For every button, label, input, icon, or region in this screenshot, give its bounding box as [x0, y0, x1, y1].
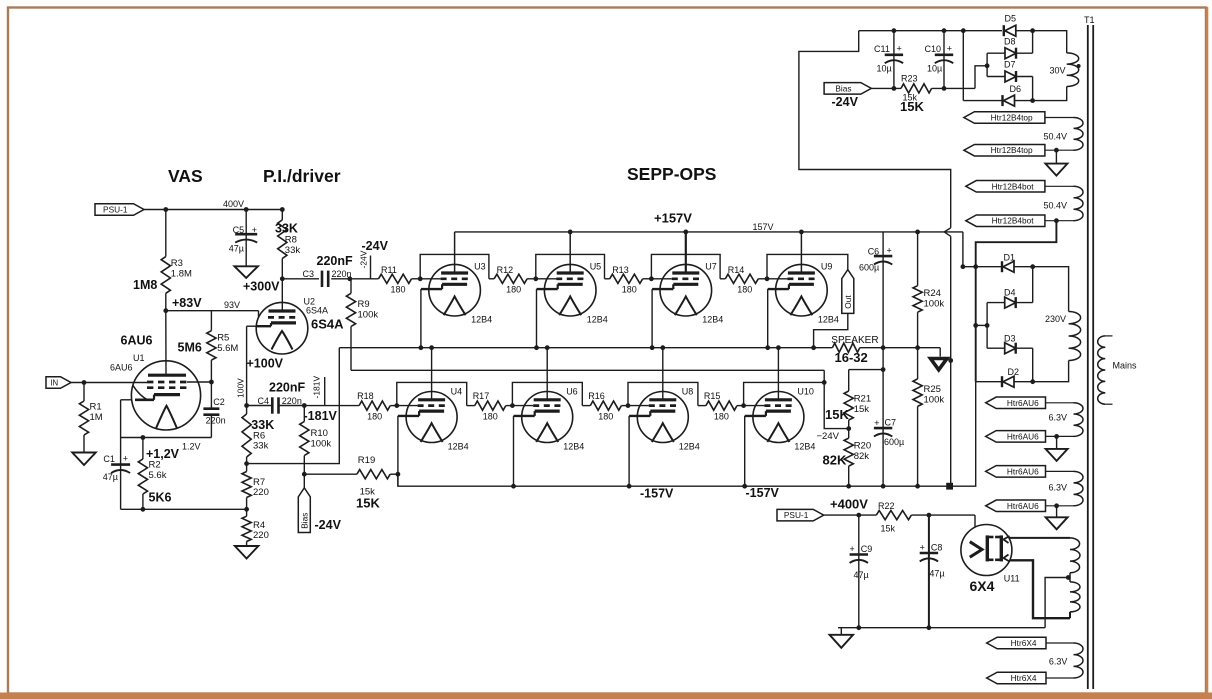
wire -24V supply top rail [859, 30, 1002, 32]
svg-text:-24V: -24V [315, 518, 342, 532]
svg-text:U7: U7 [705, 262, 717, 272]
svg-text:12B4: 12B4 [563, 442, 584, 452]
transformer T1 core [1084, 15, 1095, 689]
resistor R12 [489, 265, 536, 295]
junction bus1 at U8 plate [660, 345, 665, 350]
node PSU-1 (bottom connector) [777, 509, 824, 520]
wire Htr12B4bot lower lead [1045, 220, 1074, 222]
junction HV center tap [1066, 575, 1071, 580]
svg-text:U1: U1 [133, 353, 145, 363]
junction U9 grid node [765, 276, 770, 281]
junction U3 grid node [418, 276, 423, 281]
svg-text:R9: R9 [358, 299, 370, 310]
junction bus1 at U5 cathode [534, 345, 539, 350]
svg-text:U11: U11 [1004, 574, 1020, 584]
wire Out tag to bus1 [814, 313, 848, 347]
wire U9 grid jumper [767, 254, 848, 278]
junction input at R1 [82, 380, 87, 385]
svg-text:10µ: 10µ [877, 64, 892, 74]
svg-text:6S4A: 6S4A [311, 317, 344, 332]
wire 30V winding bottom lead [1033, 87, 1067, 101]
svg-text:12B4: 12B4 [794, 442, 815, 452]
junction bus1 at C6 column [881, 345, 886, 350]
wire +400V line [824, 514, 975, 516]
junction bias at C11 [892, 86, 897, 91]
svg-text:R2: R2 [149, 460, 161, 471]
title VAS [168, 166, 203, 186]
wire U6 plate lead [546, 348, 548, 400]
junction heater bot tap [1054, 218, 1059, 223]
wire screen to R5/C2 [187, 381, 211, 383]
junction bottom rail at R2 [141, 507, 146, 512]
ground at Htr6AU6 a [1046, 436, 1068, 461]
svg-text:+: + [850, 544, 855, 554]
svg-text:+: + [123, 453, 128, 463]
svg-text:+: + [874, 418, 879, 428]
svg-text:IN: IN [50, 379, 58, 388]
wire U8 cathode drop [628, 416, 630, 486]
svg-text:180: 180 [622, 285, 637, 295]
junction bridge2 feed left [973, 323, 978, 328]
wire D3 out to D2 node [1032, 348, 1034, 382]
diode D7 [987, 60, 1033, 83]
wire D8 out to D5 node [1032, 31, 1034, 54]
svg-text:50.4V: 50.4V [1044, 201, 1068, 211]
svg-text:D5: D5 [1005, 14, 1017, 24]
junction bus1 at U10 plate [776, 345, 781, 350]
svg-text:220: 220 [253, 487, 269, 498]
capacitor C10 [925, 31, 954, 89]
wire U3 plate lead [454, 232, 456, 273]
svg-text:T1: T1 [1084, 15, 1095, 25]
svg-text:1M: 1M [90, 412, 103, 423]
svg-text:1M8: 1M8 [133, 278, 157, 292]
node Htr6X4 (2) [987, 672, 1046, 684]
node +400V label [830, 497, 868, 512]
junction R19 at U4 cathode drop [396, 472, 401, 477]
svg-text:6AU6: 6AU6 [121, 334, 153, 348]
wire U11 plate bottom lead [1010, 560, 1070, 618]
resistor R5 [178, 311, 239, 409]
svg-text:SPEAKER: SPEAKER [831, 335, 878, 346]
junction 400V rail at R8 [280, 207, 285, 212]
svg-text:6.3V: 6.3V [1049, 657, 1068, 667]
winding 30V [1050, 53, 1081, 87]
svg-text:R14: R14 [728, 265, 745, 275]
junction bus1 at U7 cathode [650, 345, 655, 350]
wire -24V bus (bus2) [351, 370, 849, 428]
svg-text:R22: R22 [878, 501, 895, 511]
svg-text:6.3V: 6.3V [1049, 413, 1068, 423]
svg-text:15k: 15k [854, 404, 870, 415]
junction U6 grid node [510, 403, 515, 408]
svg-text:100k: 100k [924, 299, 945, 310]
svg-text:1.2V: 1.2V [182, 442, 201, 452]
svg-text:P.I./driver: P.I./driver [263, 166, 341, 186]
resistor R4 [242, 509, 269, 541]
junction D1 line at +157V drop [961, 264, 966, 269]
title SEPP-OPS [627, 164, 716, 184]
svg-text:50.4V: 50.4V [1044, 132, 1068, 142]
junction +100V/C4 node [244, 403, 249, 408]
node -24V stub at driver [359, 239, 389, 279]
svg-text:Htr12B4top: Htr12B4top [991, 113, 1033, 123]
svg-text:PSU-1: PSU-1 [784, 510, 809, 520]
node -24V label at Bias [832, 95, 859, 109]
svg-text:VAS: VAS [168, 166, 203, 186]
node Htr6AU6 (3) [986, 466, 1046, 478]
junction +157V rail at U5 [568, 230, 573, 235]
wire R21 top line [849, 369, 883, 371]
svg-text:230V: 230V [1045, 314, 1066, 324]
wire -157V cathode bus [398, 382, 976, 487]
svg-text:C9: C9 [861, 544, 873, 554]
node -181V label [304, 409, 338, 423]
capacitor C5 [229, 210, 258, 267]
junction +400V at C8 [927, 513, 932, 518]
svg-text:+: + [887, 246, 892, 256]
wire Htr6X4 lead 2 [1046, 677, 1074, 679]
junction 6AU6 heater tap b [1054, 503, 1059, 508]
svg-text:Out: Out [843, 295, 853, 309]
node Out (connector) [842, 270, 854, 314]
svg-text:+: + [947, 44, 952, 54]
junction -157V bus at U8 cathode [627, 484, 632, 489]
svg-text:30V: 30V [1050, 66, 1066, 76]
svg-text:U3: U3 [474, 262, 486, 272]
ground below C5 [234, 266, 258, 278]
junction bus1 at U3 cathode [419, 345, 424, 350]
node Htr12B4bot (lower) [966, 215, 1045, 227]
title P.I./driver [263, 166, 341, 186]
svg-text:12B4: 12B4 [702, 315, 723, 325]
svg-text:R16: R16 [588, 391, 605, 401]
wire U4 grid entry [397, 405, 418, 407]
svg-text:R3: R3 [171, 258, 183, 269]
svg-text:157V: 157V [753, 222, 774, 232]
junction -181V node [302, 403, 307, 408]
junction -157V bus at U10 cathode [742, 484, 747, 489]
tube U11 6X4 (rectifier) [961, 525, 1020, 595]
node Htr12B4top (upper) [964, 112, 1045, 124]
junction bus1 at U9 cathode [765, 345, 770, 350]
svg-text:C8: C8 [931, 542, 943, 552]
svg-text:C11: C11 [874, 44, 890, 54]
node PSU-1 (top left connector) [95, 204, 144, 216]
capacitor C11 [874, 31, 903, 89]
svg-text:R5: R5 [217, 333, 229, 344]
wire Htr6AU6 lead 3 [1046, 470, 1074, 472]
resistor R19 [304, 455, 398, 511]
svg-text:33K: 33K [275, 222, 298, 236]
wire +83V grid rail [166, 311, 259, 318]
svg-text:R15: R15 [704, 391, 721, 401]
wire U7 plate lead [685, 232, 687, 273]
svg-text:180: 180 [506, 285, 521, 295]
svg-text:R25: R25 [924, 384, 941, 395]
svg-text:R19: R19 [358, 455, 375, 466]
diode D3 [987, 334, 1033, 354]
svg-text:R12: R12 [497, 265, 514, 275]
wire U4 plate lead [431, 348, 433, 400]
wire U3 grid entry [420, 278, 440, 280]
node Htr6AU6 (2) [986, 431, 1046, 443]
wire U11 cathode feed [974, 515, 976, 527]
svg-text:+: + [252, 225, 257, 235]
svg-text:R1: R1 [90, 402, 102, 413]
wire U5 cathode drop [536, 289, 538, 348]
svg-text:Htr12B4top: Htr12B4top [991, 145, 1033, 155]
wire U1 cathode lead [121, 400, 132, 438]
node +83V label [172, 296, 240, 310]
wire U8 grid entry [628, 405, 649, 407]
tube U7 12B4 (upper) [652, 262, 723, 325]
svg-text:Htr6X4: Htr6X4 [1011, 673, 1037, 683]
svg-text:R17: R17 [473, 391, 490, 401]
wire Htr6AU6 lead 1 [1046, 402, 1074, 404]
resistor R18 [304, 391, 397, 422]
capacitor C4 [247, 381, 306, 414]
svg-text:R11: R11 [381, 265, 397, 275]
junction -157V bus at C7 [881, 484, 886, 489]
node Htr12B4top (lower) [964, 144, 1045, 156]
svg-text:U8: U8 [682, 387, 694, 397]
tube U9 12B4 (upper) [768, 262, 839, 325]
junction heater top ground tap [1054, 148, 1059, 153]
wire U5 plate lead [569, 232, 571, 273]
wire output bus (bus1) [339, 347, 940, 349]
svg-text:R23: R23 [901, 74, 918, 84]
svg-text:12B4: 12B4 [818, 315, 839, 325]
svg-text:Htr6AU6: Htr6AU6 [1007, 431, 1039, 441]
junction D6 out [1030, 98, 1035, 103]
svg-text:+300V: +300V [243, 280, 280, 294]
wire Htr12B4bot upper lead [1045, 185, 1074, 187]
node Htr6AU6 (4) [986, 500, 1046, 512]
svg-text:-157V: -157V [640, 487, 674, 501]
svg-text:Bias: Bias [835, 83, 851, 93]
junction C3/R9/R11 node [347, 276, 352, 281]
junction +83V at R3/plate [163, 308, 168, 313]
wire +157V rail [455, 231, 963, 233]
resistor R8 [275, 210, 300, 312]
svg-text:C6: C6 [868, 247, 880, 257]
svg-text:33k: 33k [285, 245, 301, 256]
capacitor C2 [203, 397, 225, 438]
winding HV 6X4 (upper) [1070, 538, 1080, 573]
svg-text:180: 180 [367, 412, 382, 422]
svg-text:6AU6: 6AU6 [110, 363, 133, 373]
svg-text:5K6: 5K6 [149, 491, 172, 505]
junction +157V rail at R24 [915, 230, 920, 235]
svg-text:R8: R8 [285, 235, 297, 246]
wire U4 cathode drop [397, 416, 399, 486]
junction bias at C10 [942, 86, 947, 91]
wire U6 grid jumper [512, 382, 582, 405]
wire U10 grid jumper [744, 382, 825, 405]
junction bus2 at U10 grid line [822, 380, 827, 385]
svg-text:SEPP-OPS: SEPP-OPS [627, 164, 716, 184]
svg-text:82k: 82k [854, 451, 870, 462]
svg-text:15K: 15K [825, 407, 849, 422]
svg-text:93V: 93V [224, 300, 240, 310]
svg-text:100k: 100k [924, 395, 945, 406]
svg-text:C4: C4 [258, 396, 270, 406]
svg-text:220n: 220n [206, 415, 226, 425]
junction D1 out [1030, 264, 1035, 269]
junction U4 grid node [394, 403, 399, 408]
junction +300V node [280, 276, 285, 281]
winding 6.3V (6AU6 a) [1049, 403, 1084, 437]
junction U10 grid node [741, 403, 746, 408]
svg-text:12B4: 12B4 [448, 442, 469, 452]
svg-text:180: 180 [598, 412, 613, 422]
svg-text:100k: 100k [358, 310, 379, 321]
resistor R17 [467, 391, 513, 422]
resistor R25 [913, 379, 944, 486]
resistor R2 [138, 438, 179, 510]
wire rail to 30V winding top [1033, 31, 1067, 53]
node Htr6X4 (1) [987, 637, 1046, 649]
junction bus1 at R24/R25 [915, 345, 920, 350]
resistor R9 [346, 279, 378, 371]
wire U10 cathode drop [744, 416, 746, 486]
wire U3 grid jumper [420, 254, 489, 278]
wire U6 cathode drop [513, 416, 515, 486]
node 100V rotated label [236, 378, 246, 398]
svg-text:U6: U6 [566, 387, 578, 397]
wire U8 plate lead [662, 348, 664, 400]
junction return line node [948, 358, 953, 363]
junction D2 out [1030, 379, 1035, 384]
svg-text:180: 180 [483, 412, 498, 422]
svg-text:600µ: 600µ [884, 437, 904, 447]
junction -157V bus at U6 cathode [511, 484, 516, 489]
resistor R10 [300, 406, 332, 475]
svg-text:220nF: 220nF [269, 381, 305, 395]
junction U7 grid node [649, 276, 654, 281]
junction rail at bridge1 left [961, 28, 966, 33]
junction +400V at C9 [856, 513, 861, 518]
wire PSU ground rail [838, 627, 1045, 629]
wire U7 grid entry [651, 278, 671, 280]
svg-text:+: + [920, 542, 925, 552]
junction bus1 at Out drop [811, 345, 816, 350]
svg-text:R13: R13 [612, 265, 629, 275]
wire center tap to ground rail [1045, 578, 1068, 628]
svg-text:Htr6AU6: Htr6AU6 [1007, 398, 1039, 408]
ground below R4 [235, 542, 259, 559]
svg-text:5.6k: 5.6k [149, 470, 167, 481]
svg-text:R18: R18 [357, 391, 374, 401]
ground below R1 [72, 453, 96, 466]
capacitor C8 [920, 515, 945, 628]
wire crossover hop [944, 228, 951, 236]
wire D1 node to 230V winding top [1033, 267, 1069, 312]
wire D7 out to D6 line [1032, 77, 1034, 101]
speaker coil 16-32 ohm [831, 335, 878, 365]
wire Htr6AU6 lead 2 [1046, 435, 1074, 437]
resistor R15 [698, 391, 744, 422]
svg-text:D8: D8 [1004, 37, 1016, 47]
ground at PSU [830, 628, 854, 648]
node +100V label [247, 357, 284, 371]
junction bias node at R10 [302, 472, 307, 477]
wire U6 grid entry [512, 405, 533, 407]
junction rail at D5 out [1030, 28, 1035, 33]
node +157V label [654, 211, 774, 233]
wire input to U1 grid [71, 382, 147, 384]
wire U5 grid entry [536, 278, 556, 280]
svg-text:1.8M: 1.8M [171, 269, 192, 280]
svg-text:+400V: +400V [830, 497, 868, 512]
svg-text:Htr6AU6: Htr6AU6 [1007, 466, 1039, 476]
svg-text:100V: 100V [236, 378, 246, 398]
svg-text:+100V: +100V [247, 357, 284, 371]
svg-text:Htr6X4: Htr6X4 [1011, 638, 1037, 648]
wire D5 output [1016, 30, 1033, 32]
diode D6 [963, 84, 1032, 106]
junction U8 grid node [626, 403, 631, 408]
svg-text:15k: 15k [881, 524, 896, 534]
wire C6/C7 column [882, 348, 884, 428]
svg-text:6X4: 6X4 [970, 578, 995, 594]
svg-text:6.3V: 6.3V [1049, 483, 1068, 493]
junction bus1 at U6 plate [545, 345, 550, 350]
wire U3 cathode drop [420, 289, 422, 348]
wire +157V drop to D1 [962, 232, 964, 267]
svg-text:+1,2V: +1,2V [146, 447, 180, 461]
wire heater bot to bridge2 [976, 221, 1057, 382]
svg-text:180: 180 [737, 285, 752, 295]
wire Htr12B4top upper lead [1045, 117, 1074, 119]
resistor R22 [876, 501, 911, 534]
svg-text:600µ: 600µ [859, 263, 879, 273]
wire D4/D3 left vertical [986, 303, 988, 349]
svg-text:Htr12B4bot: Htr12B4bot [992, 181, 1035, 191]
tube U5 12B4 (upper) [537, 262, 608, 325]
svg-text:D2: D2 [1008, 367, 1020, 377]
resistor R6 [242, 406, 274, 464]
wire R10 to Bias tag [303, 474, 305, 488]
svg-text:D6: D6 [1010, 84, 1022, 94]
junction -157V bus at R25 [915, 484, 920, 489]
wire U2 cathode to +100V line [247, 326, 257, 405]
wire bus1 left drop [247, 348, 340, 464]
svg-text:400V: 400V [223, 199, 244, 209]
wire U10 plate lead [777, 348, 779, 400]
junction ground rail at C9 [856, 625, 861, 630]
svg-text:C3: C3 [303, 269, 315, 279]
ground at Htr6AU6 b [1046, 506, 1068, 530]
wire Htr6X4 lead 1 [1046, 642, 1074, 644]
wire U5 grid jumper [536, 254, 605, 278]
svg-text:D4: D4 [1004, 288, 1016, 298]
wire 400V rail [144, 199, 282, 210]
node -24V label at R20 [817, 431, 840, 442]
junction screen grid node [209, 380, 214, 385]
svg-text:220nF: 220nF [317, 254, 353, 268]
resistor R3 [133, 210, 192, 311]
node Bias (lower connector) [298, 488, 310, 533]
node Htr6AU6 (1) [986, 397, 1046, 409]
junction 6AU6 heater tap a [1054, 434, 1059, 439]
wire U4 grid jumper [397, 382, 467, 405]
svg-text:PSU-1: PSU-1 [103, 205, 128, 215]
tube U8 12B4 (lower) [629, 387, 700, 452]
junction on 400V rail at R3 [163, 207, 168, 212]
svg-text:-181V: -181V [312, 375, 322, 398]
